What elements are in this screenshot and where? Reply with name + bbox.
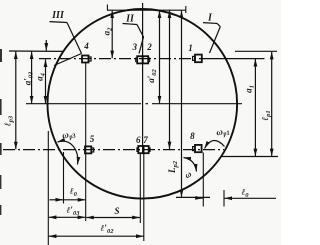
upper chord center line [39, 58, 205, 60]
svg-text:2: 2 [146, 42, 152, 52]
horizontal center line left part [26, 103, 141, 105]
top tangent dimension line [107, 9, 186, 11]
section II underline [123, 24, 138, 25]
horizontal center line right part [152, 103, 242, 105]
top line left stub [106, 5, 108, 11]
dimension a2 [111, 11, 113, 59]
dimension diameter vertical [181, 11, 183, 197]
extension line circle-chord left [63, 152, 65, 204]
extension line below insert 4/5 [85, 63, 87, 222]
top line right stub [185, 6, 187, 13]
omega_p3 arc arrow [58, 141, 78, 164]
label L_p2 [167, 160, 179, 174]
section I underline [203, 23, 220, 27]
label omega_p1 [215, 125, 231, 140]
label a'03 [23, 71, 35, 85]
insert 3 [136, 56, 143, 63]
dimension l'03 [49, 216, 85, 218]
left edge scan marks [0, 49, 2, 215]
center vertical line [142, 3, 144, 154]
insert 5 [85, 146, 94, 153]
svg-text:7: 7 [143, 135, 148, 145]
section III underline [50, 21, 68, 24]
bottom tangent line [176, 196, 210, 198]
label omega_p3 [61, 127, 77, 142]
label l_p1 [260, 110, 272, 120]
dimension l_0 right stub [225, 197, 277, 199]
svg-text:II: II [125, 14, 135, 25]
dimension l_0 right left-arrow [195, 197, 203, 199]
dimension L_p2 [169, 11, 171, 150]
dimension a4 upper stub [45, 40, 47, 51]
label a4 [35, 72, 47, 81]
label a2 [101, 27, 113, 36]
svg-text:S: S [114, 206, 119, 216]
dimension l'02 [49, 235, 144, 237]
insert 7 [144, 146, 151, 153]
svg-text:4: 4 [83, 41, 89, 51]
dimension l_p3 [15, 52, 17, 150]
svg-text:5: 5 [90, 134, 95, 144]
right upper reference line [235, 50, 277, 52]
section I leader [210, 27, 221, 53]
insert 2 [143, 56, 150, 63]
extension line left of circle [47, 131, 49, 245]
section III leader [67, 23, 82, 54]
section II leader [137, 25, 144, 54]
extension line below insert 8 [202, 153, 204, 207]
dimension S [86, 217, 140, 219]
dimension a4 [45, 59, 47, 103]
insert 4 [82, 56, 91, 63]
insert 1 [193, 55, 202, 63]
label a'02 [146, 68, 158, 82]
label omega [183, 168, 194, 180]
extension line below insert 7 [143, 153, 145, 241]
upper chord right extension [205, 58, 265, 60]
insert 8 [193, 145, 202, 152]
svg-text:6: 6 [136, 135, 141, 145]
extension line circle-chord right [223, 190, 225, 207]
svg-text:8: 8 [190, 131, 195, 141]
dimension a1 [254, 59, 256, 156]
svg-text:III: III [51, 10, 65, 21]
omega_p1 arc arrow [205, 140, 225, 148]
label l_p3 [2, 115, 14, 126]
right lower reference line [222, 156, 278, 158]
svg-text:3: 3 [132, 42, 138, 52]
svg-text:1: 1 [188, 43, 193, 53]
horizontal center line dot [146, 103, 149, 105]
lower chord center line [3, 149, 224, 151]
extension line below insert 6 [139, 153, 141, 223]
circle (cutter body) [48, 9, 238, 199]
dimension a'03 [31, 52, 33, 104]
label a1 [244, 85, 256, 93]
section III second leader [54, 54, 82, 66]
left reference line [9, 50, 64, 52]
dimension l_p1 [271, 52, 273, 156]
dimension l_0 left [50, 199, 86, 201]
dimension a'02 [159, 11, 161, 104]
insert 6 [137, 146, 144, 153]
omega arc arrow [184, 158, 197, 172]
